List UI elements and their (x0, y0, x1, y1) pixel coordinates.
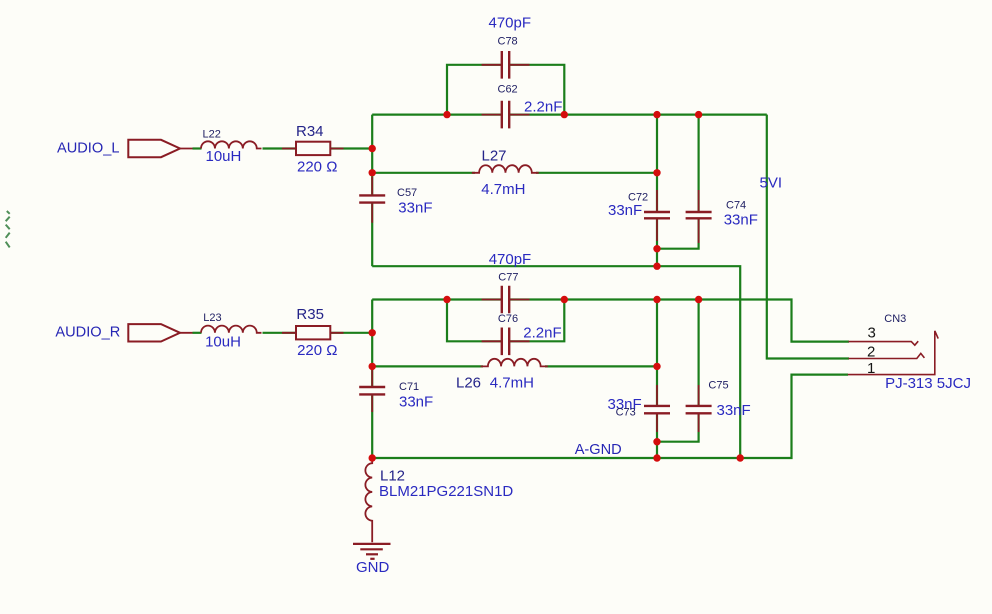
capacitor C74 (686, 190, 712, 243)
ferrite bead L12 (365, 459, 372, 542)
svg-text:C78: C78 (498, 36, 518, 48)
junction node C78 right tap (561, 111, 568, 118)
junction node C71 A-GND (369, 454, 376, 461)
inductor L23 (180, 326, 262, 333)
junction node L27 left (369, 169, 376, 176)
svg-text:10uH: 10uH (205, 334, 241, 351)
resistor R34 (282, 142, 344, 155)
pin 2 lead (849, 353, 925, 358)
junction node L26 left (369, 363, 376, 370)
svg-text:A-GND: A-GND (575, 442, 622, 458)
junction node R35 out (369, 329, 376, 336)
svg-text:C74: C74 (726, 200, 746, 212)
junction node C76 right tap (561, 296, 568, 303)
svg-text:C77: C77 (498, 272, 518, 284)
pin 3 lead (849, 341, 919, 345)
svg-text:CN3: CN3 (884, 313, 906, 325)
wire L27 row left (372, 172, 475, 174)
svg-text:33nF: 33nF (608, 202, 642, 219)
wire left vertical R upper (371, 300, 373, 388)
wire C74 bottom link (657, 219, 699, 249)
svg-text:L22: L22 (203, 129, 221, 141)
capacitor C57 (359, 177, 385, 223)
wire C78 bridge left (447, 65, 502, 116)
wire L27 row right (536, 172, 657, 174)
svg-text:2: 2 (867, 343, 875, 360)
capacitor C62 (482, 101, 530, 129)
svg-text:470pF: 470pF (489, 251, 532, 268)
svg-text:C76: C76 (498, 313, 518, 325)
junction node C76 left tap (443, 296, 450, 303)
svg-text:470pF: 470pF (489, 15, 532, 32)
svg-text:BLM21PG221SN1D: BLM21PG221SN1D (379, 483, 513, 500)
svg-text:33nF: 33nF (724, 212, 758, 229)
svg-text:33nF: 33nF (398, 200, 432, 217)
wire left vertical L upper (371, 115, 373, 196)
svg-text:4.7mH: 4.7mH (490, 374, 534, 391)
junction node L27 right (653, 169, 660, 176)
wire R rail right to pin3 (509, 300, 849, 342)
wire L-row coil to R34 node (263, 147, 373, 149)
svg-text:AUDIO_R: AUDIO_R (55, 325, 120, 341)
svg-text:2.2nF: 2.2nF (524, 99, 562, 116)
svg-text:L27: L27 (482, 147, 507, 164)
junction node C74 top (695, 111, 702, 118)
wire R rail left (372, 298, 502, 300)
svg-text:R35: R35 (296, 306, 324, 323)
wire L-row port stub (193, 147, 202, 149)
svg-text:220 Ω: 220 Ω (297, 342, 337, 359)
wire L26 row left (372, 365, 483, 367)
wire C76 bridge left (447, 298, 502, 341)
resistor R35 (282, 326, 344, 339)
wire L top rail left (372, 113, 502, 115)
capacitor C73 (644, 385, 670, 432)
capacitor C71 (359, 370, 385, 412)
wire C74 column upper (697, 115, 699, 212)
svg-text:3: 3 (868, 325, 876, 342)
svg-text:5VI: 5VI (760, 175, 783, 192)
svg-text:C57: C57 (397, 187, 417, 199)
wire left vertical L lower (371, 203, 373, 267)
wire L top rail right (509, 113, 767, 115)
wire C76 bridge right (509, 298, 564, 341)
inductor L22 (180, 141, 262, 148)
svg-text:AUDIO_L: AUDIO_L (57, 141, 119, 157)
svg-text:4.7mH: 4.7mH (481, 181, 525, 198)
connector CN3 jack PJ-313 (848, 331, 938, 375)
junction node C73 A-GND (653, 454, 660, 461)
port AUDIO_R (128, 324, 180, 341)
inductor L26 (481, 359, 548, 367)
capacitor C76 (482, 328, 530, 356)
junction node L26 right (653, 363, 660, 370)
svg-text:33nF: 33nF (399, 394, 433, 411)
svg-text:C75: C75 (708, 380, 728, 392)
pin 1 lead (848, 331, 938, 375)
junction node R34 out (369, 145, 376, 152)
junction node L bottom rail (653, 263, 660, 270)
wire R-row coil to R35 node (263, 332, 373, 334)
svg-text:C62: C62 (498, 84, 518, 96)
wire C73 column lower (656, 413, 658, 458)
svg-text:10uH: 10uH (206, 148, 242, 165)
wire L bottom rail to A-GND (372, 266, 740, 458)
svg-text:GND: GND (356, 559, 390, 576)
junction node C73 top (653, 296, 660, 303)
port AUDIO_L (128, 140, 180, 157)
svg-text:R34: R34 (296, 123, 324, 140)
wire R-row port stub (193, 332, 202, 334)
capacitor C75 (686, 385, 712, 432)
svg-text:L12: L12 (380, 468, 405, 485)
wire C72 column lower (656, 219, 658, 266)
svg-text:2.2nF: 2.2nF (523, 325, 561, 342)
wire C75 bottom link (657, 413, 699, 441)
wire C73 column upper (656, 300, 658, 406)
svg-text:L23: L23 (203, 312, 221, 324)
junction node C78 left tap (443, 111, 450, 118)
svg-text:1: 1 (867, 360, 875, 377)
capacitor C72 (644, 190, 670, 241)
inductor L27 (472, 165, 539, 173)
junction node rail drop A-GND (737, 454, 744, 461)
svg-text:L26: L26 (456, 374, 481, 391)
svg-text:C73: C73 (616, 406, 636, 418)
wire L26 row right (545, 365, 657, 367)
svg-text:33nF: 33nF (717, 402, 751, 419)
wire C72 column upper (656, 115, 658, 212)
svg-text:220 Ω: 220 Ω (297, 159, 337, 176)
svg-text:C71: C71 (399, 381, 419, 393)
capacitor C77 (482, 286, 530, 314)
wire A-GND rail to pin1 (372, 375, 848, 458)
capacitor C78 (482, 51, 530, 79)
wire 5VI vertical to pin2 (767, 115, 849, 359)
off-sheet squiggle mark (6, 211, 10, 247)
junction node C72 top (653, 111, 660, 118)
wire C78 bridge right (509, 65, 564, 116)
wire C75 column upper (697, 300, 699, 406)
wire left vertical R lower (371, 394, 373, 458)
ground symbol (353, 544, 391, 559)
junction node C72 bottom link (653, 245, 660, 252)
junction node C75 top (695, 296, 702, 303)
junction node C73 bottom link (653, 438, 660, 445)
svg-text:PJ-313 5JCJ: PJ-313 5JCJ (885, 375, 971, 392)
